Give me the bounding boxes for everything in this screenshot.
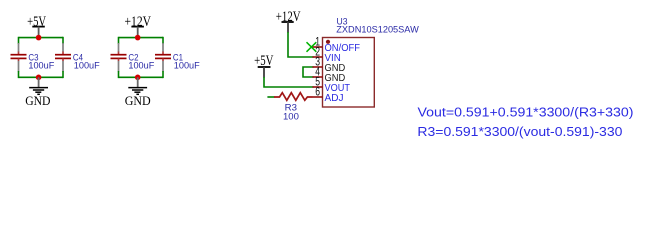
svg-text:100uF: 100uF: [128, 59, 154, 70]
svg-text:100uF: 100uF: [74, 59, 100, 70]
pin 4 GND: [313, 76, 323, 78]
no-ERC cross on pin 1: [307, 42, 317, 52]
resistor R3: [274, 93, 313, 101]
wire lower stub of C2: [118, 71, 120, 78]
pin 5 VOUT: [313, 86, 323, 88]
wire lower stub of C1: [162, 71, 164, 78]
svg-text:Vout=0.591+0.591*3300/(R3+330): Vout=0.591+0.591*3300/(R3+330): [418, 105, 634, 120]
junction: [135, 75, 141, 81]
IC U3 ZXDN10S1205SAW body: [323, 38, 375, 108]
wire lower stub of C3: [18, 71, 20, 78]
svg-text:R3=0.591*3300/(vout-0.591)-330: R3=0.591*3300/(vout-0.591)-330: [417, 124, 622, 139]
pin 2 VIN: [313, 56, 323, 58]
svg-text:ZXDN10S1205SAW: ZXDN10S1205SAW: [336, 24, 419, 35]
junction: [36, 35, 42, 41]
ground: [137, 77, 139, 87]
wire lower stub of C4: [62, 71, 64, 78]
wire upper stub of C3: [18, 37, 20, 44]
wire +5V to pin 5 VOUT: [264, 77, 314, 87]
svg-text:GND: GND: [25, 93, 50, 108]
svg-text:100: 100: [283, 110, 299, 121]
pin 6 ADJ: [313, 96, 323, 98]
svg-text:GND: GND: [125, 93, 151, 108]
pin 1 ON/OFF: [313, 46, 323, 48]
wire upper stub of C2: [118, 37, 120, 44]
capacitor C2: [118, 43, 120, 52]
capacitor C3: [18, 43, 20, 52]
wire top rail: [19, 37, 64, 39]
junction: [36, 75, 42, 81]
wire +12V to pin 2 VIN: [288, 32, 314, 57]
wire upper stub of C4: [62, 37, 64, 44]
wire joining pin 3 GND and pin 4 GND: [303, 67, 314, 77]
capacitor C1: [162, 43, 164, 52]
svg-text:100uF: 100uF: [174, 59, 200, 70]
wire stub left of R3: [267, 96, 274, 98]
wire bottom rail: [19, 76, 64, 78]
svg-text:ADJ: ADJ: [325, 93, 344, 104]
pin 3 GND: [313, 66, 323, 68]
wire bottom rail: [119, 76, 164, 78]
capacitor C4: [62, 43, 64, 52]
pin 1 marker dot: [326, 40, 330, 44]
ground: [38, 77, 40, 87]
wire upper stub of C1: [162, 37, 164, 44]
svg-text:6: 6: [315, 87, 320, 99]
svg-text:100uF: 100uF: [28, 59, 54, 70]
wire top rail: [119, 37, 164, 39]
junction: [135, 35, 141, 41]
